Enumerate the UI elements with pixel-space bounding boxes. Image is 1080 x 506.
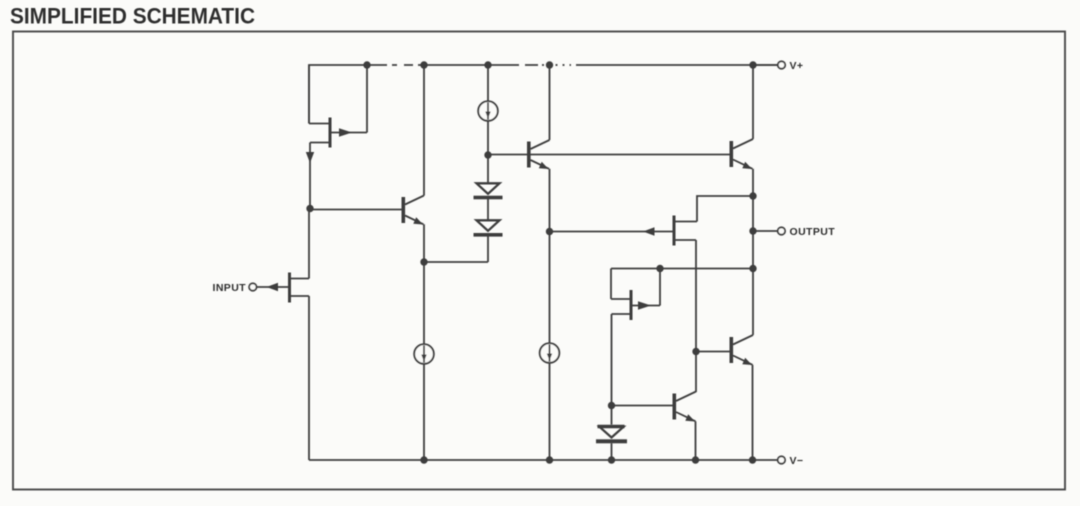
transistor Q4 (lower-middle NPN) <box>673 392 697 422</box>
wire node A to Q1 base <box>310 209 402 211</box>
wire diode chain bottom lead <box>487 236 489 262</box>
junction at 695.5,460 <box>692 456 699 463</box>
wire down to current source I1 <box>423 262 425 460</box>
wire J3 top lead up to node C <box>697 196 753 222</box>
wire Q1 emitter node to diode chain <box>424 261 488 263</box>
wire D3 cathode to V- rail <box>611 443 613 460</box>
transistor Q3 (top-right NPN) <box>730 139 754 169</box>
wire Q5 emitter to V- rail <box>752 365 754 460</box>
terminal V- <box>778 456 785 463</box>
junction at 611.5,405.5 <box>608 402 615 409</box>
junction at 696,351.5 <box>692 348 699 355</box>
current source I3 <box>540 343 560 363</box>
wire V+ top rail (faded section 2) <box>517 64 549 66</box>
wire J1 source down with current arrow <box>306 143 314 209</box>
wire V- bottom rail <box>309 459 778 461</box>
junction at 753,231 <box>749 227 756 234</box>
wire Q3 collector to rail <box>752 65 754 139</box>
wire Q2 collector to rail <box>549 65 551 140</box>
transistor Q2 (middle NPN) <box>527 140 550 169</box>
JFET J4 (small, lower-middle) <box>611 290 660 320</box>
transistor Q5 (lower-right NPN) <box>730 335 754 365</box>
svg-text:INPUT: INPUT <box>213 282 247 294</box>
diode D3 <box>596 427 627 444</box>
wire Q1 emitter down <box>423 224 425 262</box>
svg-text:OUTPUT: OUTPUT <box>790 226 836 238</box>
junction at 549.5,460 <box>546 456 553 463</box>
wire J3 bottom lead down <box>695 240 697 392</box>
svg-text:V+: V+ <box>790 60 804 72</box>
JFET J2 (input) <box>257 273 310 303</box>
terminal OUTPUT <box>778 227 785 234</box>
junction at 753,196 <box>749 192 756 199</box>
wire node D down to J4 gate <box>610 269 612 300</box>
junction at 367,65 <box>363 61 370 68</box>
wire V+ stub <box>753 64 778 66</box>
junction at 753,268.5 <box>749 265 756 272</box>
diode D1 (upper of pair) <box>474 183 503 199</box>
current source I1 <box>414 344 434 364</box>
terminal V+ <box>778 61 785 68</box>
wire V+ top rail (solid right) <box>577 64 778 66</box>
JFET J3 (mid-right) <box>673 216 698 246</box>
junction at 752.5,460 <box>749 456 756 463</box>
wire J1 drain to rail <box>366 65 368 133</box>
wire Q3 emitter to node C and down to output <box>752 169 754 269</box>
wire node E to Q5 base <box>696 351 730 353</box>
junction at 424,262 <box>420 258 427 265</box>
junction at 611.5,460 <box>608 456 615 463</box>
wire Q2 emitter down <box>549 169 551 232</box>
wire V+ top rail (dash-dot section 3) <box>549 64 577 66</box>
wire Q4 emitter to V- rail <box>695 421 697 460</box>
wire node D horizontal (output stage bias) <box>611 268 753 270</box>
wire between D1 and D2 <box>487 199 489 220</box>
wire output stub <box>753 230 778 232</box>
transistor Q1 (left NPN) <box>402 196 425 225</box>
wire Q1 collector to rail <box>423 65 425 196</box>
wire V+ top rail (dash-dot section 1) <box>378 64 423 66</box>
svg-text:SIMPLIFIED SCHEMATIC: SIMPLIFIED SCHEMATIC <box>10 4 255 29</box>
junction at 424,65 <box>420 61 427 68</box>
diode D2 (lower of pair) <box>474 220 503 236</box>
junction at 488,65 <box>484 61 491 68</box>
wire base line node B to Q2 and Q3 bases <box>488 154 730 156</box>
JFET J1 (top-left) <box>309 118 367 148</box>
wire J2 drain up to node A <box>308 209 310 279</box>
wire D1 anode up to node B <box>487 155 489 183</box>
junction at 310,208.5 <box>306 205 313 212</box>
JFET J1 gate wire from rail <box>308 65 310 124</box>
junction at 549.5,231.5 <box>546 228 553 235</box>
wire V+ top rail (solid mid) <box>423 64 517 66</box>
wire J2 source down to V- rail corner <box>308 296 310 460</box>
wire Q5 collector up to node D <box>752 269 754 336</box>
junction at 660,268.5 <box>656 265 663 272</box>
wire J4 source down <box>611 314 613 425</box>
junction at 424,460 <box>420 456 427 463</box>
terminal INPUT <box>249 283 256 290</box>
junction at 488,155 <box>484 151 491 158</box>
current source I2 (top) <box>478 101 498 121</box>
wire node B up to current source I2 <box>487 65 489 155</box>
wire to Q4 base <box>612 405 673 407</box>
wire Q2 emitter node to J3 gate with arrow <box>550 227 673 236</box>
wire V+ top rail (solid part left) <box>309 65 378 124</box>
wire down to current source I3 <box>549 232 551 461</box>
svg-text:V−: V− <box>790 455 804 467</box>
wire J4 drain up to node D <box>659 269 661 306</box>
junction at 549.5,65 <box>546 61 553 68</box>
junction at 753,65 <box>749 61 756 68</box>
